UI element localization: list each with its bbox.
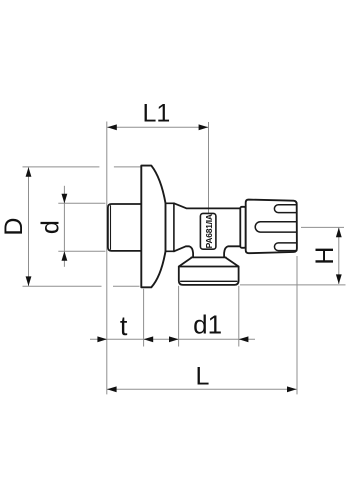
wire [58,250,105,252]
svg-text:D: D [0,218,28,236]
node arrow-L1-left [107,124,117,130]
svg-text:d1: d1 [193,310,222,340]
wire [178,286,180,347]
wire [58,202,105,204]
node handle-groove-mid [255,222,296,232]
wire [338,228,340,284]
node arrow-L1-right [199,124,209,130]
node threaded-pipe [108,204,141,251]
node handle [246,200,297,254]
node neck-ledges [166,203,175,251]
node outlet-lip [191,256,225,258]
node bonnet-collar [240,207,245,248]
node arrow-L-left [107,386,117,392]
node handle-groove-bottom [274,243,296,251]
node arrow-H-bottom [336,274,342,284]
wire [296,256,298,394]
node outlet-nut [179,267,239,285]
wire [107,388,297,390]
svg-text:H: H [311,247,339,265]
wire [238,286,240,347]
wire [301,226,344,228]
node body-bottom-right [224,246,240,257]
node body-bottom-left [174,246,193,257]
node arrow-d1-left [169,336,179,342]
node arrow-D-bottom [26,276,32,286]
wire [63,186,65,267]
node outlet-flare [179,258,239,267]
node arrow-D-top [26,167,32,177]
node rosette [141,166,165,288]
wire [208,122,210,213]
svg-text:t: t [120,311,128,341]
node arrow-d1-right [239,336,249,342]
node arrow-t-left [97,336,107,342]
node label-plate [200,213,216,249]
node arrow-d-bottom [62,251,68,261]
svg-text:d: d [37,220,65,234]
wire [240,284,346,286]
wire [28,167,30,286]
svg-text:L: L [196,362,210,390]
node body-top [174,203,240,208]
svg-text:L1: L1 [142,100,170,128]
wire [106,122,108,395]
wire [23,166,141,168]
wire [143,289,145,347]
node thread-chamfer [110,206,112,250]
node arrow-t-right [144,336,154,342]
node nut-chamfer [181,280,237,282]
wire [90,338,255,340]
node arrow-L-right [287,386,297,392]
node handle-groove-top [274,205,296,213]
svg-text:PA681/IA: PA681/IA [204,214,214,248]
wire [107,126,208,128]
wire [23,285,140,287]
node arrow-d-top [62,194,68,204]
node arrow-H-top [336,228,342,238]
